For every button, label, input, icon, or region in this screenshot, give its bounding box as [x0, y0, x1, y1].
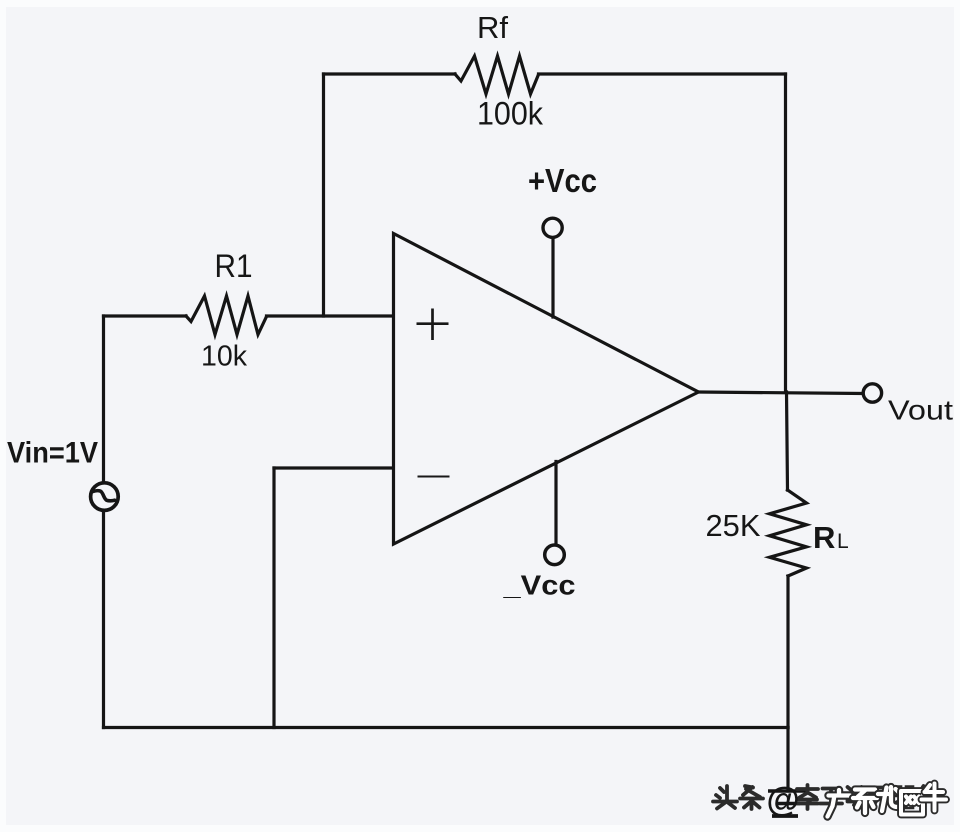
wire R1 left horizontal	[104, 314, 187, 317]
svg-text:Vin=1V: Vin=1V	[7, 437, 98, 470]
glyph 元	[870, 788, 891, 804]
glyph 广 outline	[828, 790, 851, 817]
wire RL to bottom	[786, 576, 789, 728]
wire -Vcc stub	[554, 462, 557, 545]
-Vcc terminal	[545, 545, 565, 565]
wire bottom horizontal	[104, 726, 789, 729]
wire right vertical from top to output node	[784, 74, 787, 392]
wire output horizontal	[699, 392, 863, 394]
wire Vin source vertical upper	[102, 316, 105, 481]
svg-text:_Vcc: _Vcc	[502, 570, 575, 601]
ground	[768, 791, 808, 816]
svg-text:+Vcc: +Vcc	[528, 162, 597, 199]
wire top feedback left vertical	[322, 74, 325, 316]
wire top feedback horizontal left of Rf	[324, 72, 456, 75]
glyph 件	[919, 786, 941, 809]
wire top feedback horizontal right of Rf	[539, 72, 786, 75]
watermark white outlined text 广东龙网牛	[828, 784, 947, 817]
wire from R1 to op-amp + input	[267, 314, 393, 317]
svg-text:@: @	[767, 781, 800, 819]
glyph 龙 outline	[878, 787, 902, 811]
wire - input vertical down to bottom	[272, 468, 275, 728]
svg-text:Vout: Vout	[888, 395, 953, 426]
svg-text:10k: 10k	[201, 341, 247, 373]
resistor R1	[186, 296, 267, 335]
+Vcc terminal	[543, 218, 562, 237]
watermark dark text 头条@李工谈元器件	[713, 785, 941, 809]
op-amp + input marker	[417, 309, 449, 341]
resistor Rf	[455, 56, 539, 94]
svg-text:R1: R1	[215, 248, 253, 284]
glyph 头	[713, 786, 737, 809]
AC source V1	[91, 483, 119, 511]
svg-text:100k: 100k	[477, 96, 544, 132]
svg-text:L: L	[837, 530, 849, 553]
glyph 条	[740, 786, 763, 809]
wire Vin source vertical lower	[102, 512, 105, 728]
output terminal Vout	[863, 384, 881, 402]
wire right vertical output node to RL	[787, 392, 788, 490]
op-amp - input marker	[418, 476, 450, 478]
glyph 东 outline	[853, 790, 877, 814]
wire +Vcc stub	[551, 239, 554, 317]
svg-text:25K: 25K	[706, 508, 761, 543]
wire bottom to ground	[786, 728, 789, 792]
glyph 工	[820, 789, 842, 804]
wire - input horizontal	[274, 466, 393, 469]
glyph 谈	[848, 787, 864, 805]
glyph 网 outline	[901, 791, 923, 815]
op-amp U1	[394, 234, 699, 545]
glyph 李	[796, 785, 818, 809]
svg-text:R: R	[813, 520, 835, 555]
svg-text:Rf: Rf	[477, 10, 508, 45]
glyph 器	[892, 787, 915, 809]
resistor RL	[770, 490, 807, 576]
watermark	[713, 781, 946, 819]
glyph 牛 outline	[922, 784, 947, 811]
